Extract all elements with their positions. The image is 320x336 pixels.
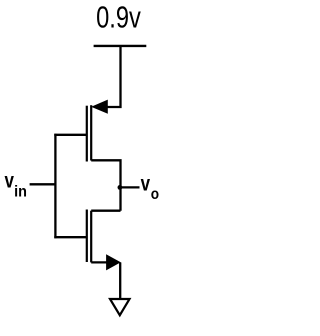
ground symbol [110,299,130,315]
PMOS source arrow [92,100,107,113]
NMOS source arrow [107,255,120,269]
svg-text:v: v [5,169,15,193]
wire NMOS gate branch [54,236,87,238]
wire output stub [120,186,140,188]
NMOS channel bar [90,211,92,263]
PMOS gate bar [86,106,88,162]
PMOS channel bar [90,105,92,160]
NMOS gate bar [86,210,88,263]
wire PMOS gate branch [54,134,87,136]
svg-text:v: v [141,172,151,196]
supply label 0.9v [96,0,141,34]
node vo junction dot [118,185,123,190]
wire vin stub [30,183,56,185]
wire PMOS drain to output [91,160,120,210]
wire NMOS source [91,261,107,263]
svg-text:o: o [151,186,159,203]
wire NMOS drain [91,210,120,212]
wire to ground [119,262,121,299]
VDD power rail [94,45,147,47]
input label vin [5,169,27,201]
svg-text:in: in [14,183,27,201]
gate bus vertical [54,134,56,239]
wire rail to PMOS source [108,46,121,107]
svg-text:0.9v: 0.9v [96,0,141,34]
output label vo [141,172,160,204]
